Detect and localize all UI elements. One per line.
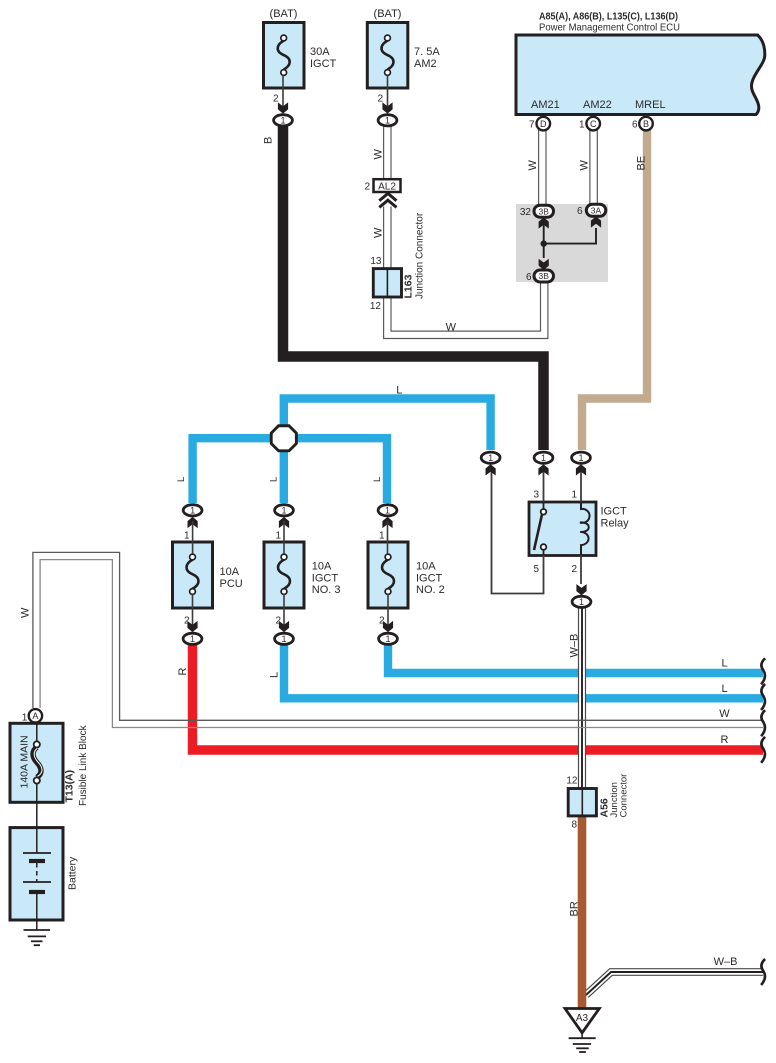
svg-text:5: 5 <box>533 564 539 575</box>
svg-text:Fusible Link Block: Fusible Link Block <box>78 724 89 806</box>
svg-text:8: 8 <box>571 820 577 831</box>
wire L (blue) upper run octagon junction to relay pin 5 connector <box>284 399 491 451</box>
svg-text:2: 2 <box>275 616 281 627</box>
svg-text:D: D <box>540 119 547 129</box>
svg-text:B: B <box>643 119 649 129</box>
svg-text:6: 6 <box>577 206 583 217</box>
svg-text:1: 1 <box>379 531 385 542</box>
svg-text:MREL: MREL <box>635 99 666 111</box>
svg-text:(BAT): (BAT) <box>270 8 298 20</box>
arrow up into oval above fuse IGCT NO.2 <box>382 517 392 528</box>
svg-text:R: R <box>721 734 729 746</box>
fuse 7.5A AM2 body <box>367 23 408 89</box>
svg-text:AM2: AM2 <box>414 58 437 70</box>
svg-text:2: 2 <box>364 182 370 193</box>
wire L (blue) fuse IGCT NO.2 to right edge <box>388 645 763 673</box>
svg-text:NO. 3: NO. 3 <box>312 584 341 596</box>
IGCT relay pin 1 wire <box>580 470 582 502</box>
arrow up into 32(3B) oval <box>539 217 549 228</box>
fuse 10A IGCT NO.2 element symbol <box>382 554 394 594</box>
battery plates symbol <box>23 828 51 930</box>
wire W-B branch from ground lead to right edge <box>586 972 763 995</box>
shaded junction connector area <box>516 204 608 282</box>
svg-text:AM21: AM21 <box>531 99 560 111</box>
svg-text:W: W <box>373 149 385 160</box>
continuation brace R <box>761 737 765 763</box>
svg-text:1: 1 <box>385 634 390 644</box>
svg-text:W: W <box>579 160 591 171</box>
wire BR (brown) A56 pin 8 to ground A3 <box>578 815 587 1008</box>
junction connector L163 divider <box>386 269 388 297</box>
svg-text:12: 12 <box>566 776 578 787</box>
fuse 10A IGCT NO.3 body <box>264 542 304 608</box>
svg-text:1: 1 <box>488 453 493 463</box>
arrow up into oval above fuse IGCT NO.3 <box>279 517 289 528</box>
wire BE (beige) ECU MREL to IGCT relay pin 1 connector <box>582 128 647 450</box>
svg-text:(BAT): (BAT) <box>374 8 402 20</box>
svg-text:B: B <box>263 137 275 144</box>
arrow down into oval below relay pin 2 <box>576 584 586 595</box>
svg-text:1: 1 <box>541 453 546 463</box>
fuse IGCT NO.3 pin 2 lead wire <box>283 594 285 630</box>
svg-text:7: 7 <box>529 120 535 131</box>
svg-text:BR: BR <box>569 901 581 916</box>
svg-text:2: 2 <box>184 616 190 627</box>
connector oval 1 at relay pin 3 <box>534 452 553 463</box>
arrow down into oval below fuse PCU <box>187 621 197 632</box>
junction connector A56 body <box>568 789 596 816</box>
svg-text:L163: L163 <box>403 274 415 298</box>
svg-text:L: L <box>721 658 727 670</box>
svg-text:L: L <box>269 672 281 678</box>
svg-text:L: L <box>176 477 187 482</box>
svg-text:2: 2 <box>379 616 385 627</box>
fuse PCU pin 1 lead wire <box>192 521 194 554</box>
junction connector L163 body <box>373 269 401 297</box>
fuse 10A IGCT NO.2 body <box>368 542 408 608</box>
IGCT relay body <box>529 502 596 556</box>
svg-text:32: 32 <box>520 207 532 218</box>
continuation brace L upper <box>761 658 765 684</box>
wire L (blue) lower run across fuse tops <box>193 438 387 503</box>
svg-text:IGCT: IGCT <box>601 506 628 518</box>
svg-text:7. 5A: 7. 5A <box>414 46 440 58</box>
connector oval 1 above fuse PCU <box>183 505 202 516</box>
fuse 30A IGCT body <box>264 23 305 89</box>
connector AL2 chevrons <box>379 194 396 208</box>
connector oval 32(3B) <box>534 205 554 217</box>
svg-text:30A: 30A <box>310 46 330 58</box>
svg-text:6: 6 <box>632 120 638 131</box>
svg-text:1: 1 <box>190 634 195 644</box>
battery body <box>10 828 63 920</box>
svg-text:W: W <box>20 607 32 618</box>
fuse IGCT NO.2 pin 2 lead wire <box>387 594 389 630</box>
arrow into connector below fuse 30A <box>278 102 288 113</box>
fuse 30A IGCT element symbol <box>278 35 290 75</box>
svg-text:3: 3 <box>533 490 539 501</box>
svg-text:2: 2 <box>571 564 577 575</box>
svg-text:1: 1 <box>190 506 195 516</box>
arrow down into 6(3B) oval <box>539 259 549 270</box>
svg-text:L: L <box>396 385 402 397</box>
svg-text:C: C <box>590 119 597 129</box>
arrow up into relay pin 5 oval <box>486 464 496 475</box>
svg-text:3A: 3A <box>591 205 602 215</box>
connector oval 1 below fuse AM2 <box>378 115 397 126</box>
wire W ECU AM22 to junction connector 6(3A) <box>589 129 598 205</box>
fuse IGCT NO.2 pin 1 lead wire <box>387 521 389 554</box>
svg-text:Battery: Battery <box>67 856 79 890</box>
svg-text:L: L <box>268 477 279 482</box>
svg-text:1: 1 <box>579 597 584 607</box>
arrow into connector below fuse AM2 <box>382 102 392 113</box>
fuse 7.5A AM2 pin 2 lead wire <box>387 75 389 111</box>
fuse 10A IGCT NO.3 element symbol <box>278 554 290 594</box>
svg-text:Junction Connector: Junction Connector <box>415 212 426 299</box>
svg-text:W: W <box>446 322 457 334</box>
arrow down into oval below fuse IGCT NO.3 <box>279 621 289 632</box>
arrow down into oval below fuse IGCT NO.2 <box>383 621 393 632</box>
connector oval 6(3A) <box>586 204 606 216</box>
IGCT relay pin 3 wire <box>543 470 545 502</box>
octagon junction symbol on L wires <box>271 426 296 451</box>
svg-text:3B: 3B <box>538 206 549 216</box>
arrow up into relay pin 1 oval <box>576 464 586 475</box>
connector AL2 body <box>374 179 401 192</box>
svg-text:A: A <box>32 711 38 721</box>
svg-text:1: 1 <box>578 453 583 463</box>
svg-text:W: W <box>373 227 385 238</box>
connector oval 1 below relay pin 2 <box>572 596 591 607</box>
svg-text:T13(A): T13(A) <box>64 770 76 803</box>
continuation brace L lower <box>761 684 765 710</box>
continuation brace W <box>761 710 765 736</box>
wire R (red) fuse PCU to right edge <box>193 645 764 750</box>
circle connector A at fusible link <box>29 709 42 722</box>
connector oval 1 above fuse IGCT NO.2 <box>378 505 397 516</box>
svg-text:1: 1 <box>184 531 190 542</box>
svg-text:1: 1 <box>22 713 28 724</box>
fusible link block T13(A) body <box>10 723 63 802</box>
fusible link 140A MAIN element symbol <box>33 723 42 827</box>
svg-text:140A MAIN: 140A MAIN <box>19 735 31 788</box>
svg-text:1: 1 <box>385 116 390 126</box>
IGCT relay switch contact <box>534 502 546 555</box>
svg-text:IGCT: IGCT <box>310 58 337 70</box>
wire L (blue) fuse IGCT NO.3 to right edge <box>284 645 763 698</box>
svg-text:A3: A3 <box>576 1013 589 1024</box>
IGCT relay pin 5 wire to connector <box>492 470 544 594</box>
wire L (blue) octagon down to fuse IGCT NO.3 connector <box>280 449 288 503</box>
svg-text:1: 1 <box>571 490 577 501</box>
svg-text:W: W <box>527 160 539 171</box>
circle connector B at ECU MREL <box>639 117 653 131</box>
wire W ECU AM21 to junction connector 32(3B) <box>538 129 547 206</box>
svg-text:2: 2 <box>273 94 279 105</box>
fuse 7.5A AM2 element symbol <box>382 35 394 75</box>
svg-text:R: R <box>177 668 189 676</box>
svg-text:10A: 10A <box>312 561 332 573</box>
fuse 10A PCU body <box>173 542 213 608</box>
circle connector D at ECU AM21 <box>537 117 551 131</box>
svg-text:10A: 10A <box>220 566 240 578</box>
svg-text:1: 1 <box>385 506 390 516</box>
svg-text:6: 6 <box>526 272 532 283</box>
junction connector A56 divider <box>581 789 583 816</box>
svg-text:BE: BE <box>636 156 648 171</box>
junction wire dot to 3A <box>544 228 596 244</box>
thick wires <box>193 125 764 750</box>
svg-text:13: 13 <box>370 256 382 267</box>
svg-text:10A: 10A <box>416 561 436 573</box>
svg-text:1: 1 <box>275 531 281 542</box>
svg-text:W–B: W–B <box>569 634 581 658</box>
svg-text:Connector: Connector <box>619 774 630 818</box>
svg-text:W: W <box>719 708 730 720</box>
fuse 30A IGCT pin 2 lead wire <box>282 75 284 111</box>
svg-text:Relay: Relay <box>601 518 630 530</box>
fuse IGCT NO.3 pin 1 lead wire <box>283 521 285 554</box>
svg-text:NO. 2: NO. 2 <box>416 584 445 596</box>
connector oval 1 below fuse PCU <box>183 633 202 644</box>
white double-line wires <box>33 126 763 1008</box>
fuse PCU pin 2 lead wire <box>192 594 194 630</box>
fuse 10A PCU element symbol <box>187 554 199 594</box>
svg-text:L: L <box>372 477 383 482</box>
ECU A85/A86/L135/L136 Power Management Control ECU <box>516 35 765 115</box>
svg-text:2: 2 <box>377 94 383 105</box>
svg-text:Power Management Control ECU: Power Management Control ECU <box>539 22 680 34</box>
wire W-B relay pin 2 connector to A56 pin 12 (white w/ black stripe) <box>578 607 586 789</box>
svg-text:AL2: AL2 <box>378 181 396 192</box>
connector oval 1 at relay pin 5 wire <box>481 452 500 463</box>
wire W fuse AM2 connector down through AL2 to L163 pin 13 <box>383 126 392 179</box>
arrow up into 6(3A) oval <box>591 216 601 227</box>
continuation brace W-B <box>761 959 765 985</box>
junction wire 3B to dot <box>543 216 545 258</box>
svg-text:3B: 3B <box>538 271 549 281</box>
svg-text:1: 1 <box>281 634 286 644</box>
svg-text:IGCT: IGCT <box>312 572 339 584</box>
arrow up into relay pin 3 oval <box>538 464 548 475</box>
svg-text:PCU: PCU <box>220 578 243 590</box>
connector oval 1 below fuse IGCT NO.3 <box>275 633 294 644</box>
junction solder dot <box>541 240 547 246</box>
svg-text:L: L <box>721 683 727 695</box>
svg-text:W–B: W–B <box>714 956 738 968</box>
svg-text:12: 12 <box>370 301 382 312</box>
ground symbol below battery <box>24 930 51 945</box>
wire B (black) fuse 30A IGCT to IGCT relay pin 3 connector <box>283 125 544 450</box>
IGCT relay coil <box>580 502 590 555</box>
connector oval 1 above fuse IGCT NO.3 <box>275 505 294 516</box>
ground point A3 triangle <box>565 1009 599 1033</box>
IGCT relay pin 2 wire <box>580 555 582 584</box>
connector oval 1 at relay pin 1 <box>572 452 591 463</box>
svg-text:1: 1 <box>281 506 286 516</box>
connector oval 6(3B) <box>534 270 554 282</box>
connector oval 1 below fuse IGCT NO.2 <box>379 633 398 644</box>
svg-text:IGCT: IGCT <box>416 572 443 584</box>
ground symbol below A3 <box>569 1033 596 1052</box>
wire W L163 pin 12 to junction connector 3B <box>387 283 544 335</box>
connector oval 1 below fuse 30A <box>274 115 293 126</box>
svg-text:1: 1 <box>579 120 585 131</box>
wire W battery fusible link to right edge (double thin line) <box>33 552 763 720</box>
svg-text:1: 1 <box>280 116 285 126</box>
arrow up into oval above fuse PCU <box>188 517 198 528</box>
circle connector C at ECU AM22 <box>586 117 600 131</box>
svg-text:AM22: AM22 <box>583 99 612 111</box>
